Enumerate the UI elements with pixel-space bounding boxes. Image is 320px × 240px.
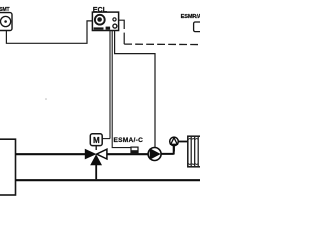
svg-text:ESMR/A: ESMR/A	[181, 14, 200, 20]
svg-text:ESMA/-C: ESMA/-C	[114, 137, 144, 144]
svg-text:M: M	[93, 136, 100, 145]
